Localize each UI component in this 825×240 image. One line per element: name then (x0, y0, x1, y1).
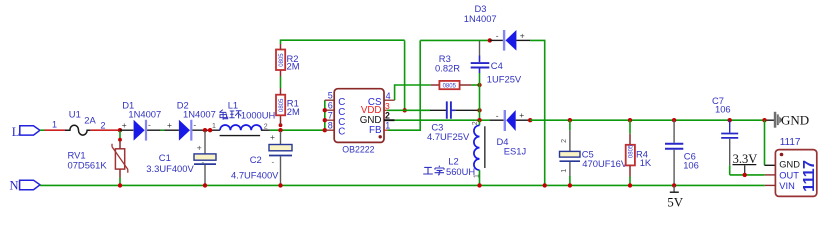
svg-text:C1: C1 (159, 152, 171, 163)
pin 2 GND (360, 111, 395, 126)
wire D1 to D2 (147, 129, 179, 131)
node bus pin8 junction (323, 128, 327, 132)
svg-text:560UH: 560UH (446, 166, 475, 177)
node VDD junction (403, 108, 407, 112)
label 色环1000UH (219, 110, 241, 120)
node GND row C4-column junction (477, 118, 481, 122)
node C6 top junction (672, 118, 676, 122)
wire GND row (pin2 net) (395, 119, 504, 121)
wire R2 top to VDD drop (281, 40, 405, 44)
svg-text:2: 2 (385, 111, 390, 121)
node C1 bottom junction (203, 183, 207, 187)
resistor R2 2M (276, 44, 300, 77)
svg-text:2: 2 (264, 123, 268, 130)
diode D1 1N4007 (122, 100, 161, 141)
svg-text:C2: C2 (250, 154, 262, 165)
capacitor C2 4.7UF400V (231, 131, 292, 185)
svg-text:D3: D3 (475, 3, 487, 14)
svg-text:-: - (148, 119, 151, 129)
node L (input connector) (12, 125, 40, 139)
svg-text:1: 1 (52, 120, 57, 130)
wire GND row to GND symbol (530, 119, 774, 121)
svg-text:2M: 2M (287, 106, 300, 117)
svg-text:0.82R: 0.82R (435, 63, 460, 74)
node top row D3 junction (488, 38, 492, 42)
svg-text:1: 1 (385, 121, 390, 131)
svg-text:3.3UF400V: 3.3UF400V (146, 163, 194, 174)
node R4 top junction (628, 118, 632, 122)
svg-text:5: 5 (328, 91, 333, 101)
svg-text:OUT: OUT (779, 170, 799, 180)
node R1 pin end dot (279, 123, 283, 127)
node C6 bottom junction (672, 183, 676, 187)
svg-text:+: + (167, 120, 172, 130)
inductor L1 色环1000UH (212, 99, 268, 135)
svg-text:2: 2 (561, 139, 568, 143)
node C7 top junction (728, 118, 732, 122)
wire top row right and down (530, 40, 545, 185)
svg-text:+: + (519, 110, 524, 120)
svg-text:1: 1 (561, 169, 568, 173)
wire OUT row (730, 174, 765, 176)
svg-text:4.7UF25V: 4.7UF25V (427, 131, 470, 142)
wire top row left (420, 39, 490, 41)
node GND drop junction (762, 118, 766, 122)
svg-text:1117: 1117 (780, 137, 801, 148)
node L1 pin1 dot (208, 128, 212, 132)
pin 1 FB (369, 121, 390, 136)
svg-text:7: 7 (328, 111, 333, 121)
node RV1 bottom junction (118, 183, 122, 187)
wire D2 to L1 (192, 129, 220, 131)
node A junction (118, 128, 122, 132)
svg-text:ES1J: ES1J (504, 145, 526, 156)
label 工字560UH (423, 166, 444, 176)
resistor R4 1K (626, 120, 652, 185)
svg-text:C: C (338, 126, 345, 137)
svg-text:3.3V: 3.3V (733, 152, 758, 166)
svg-text:0805: 0805 (279, 53, 285, 67)
svg-text:5V: 5V (667, 195, 684, 210)
node C5 top junction (568, 118, 572, 122)
svg-text:-: - (193, 119, 196, 129)
node VDD/C4 column junction (477, 108, 481, 112)
svg-text:OB2222: OB2222 (342, 145, 374, 155)
wire VDD row to C3 (387, 109, 447, 111)
svg-text:N: N (10, 178, 19, 192)
svg-text:2A: 2A (84, 115, 96, 126)
capacitor C4 1UF25V (471, 40, 522, 85)
wire node A to D1 (120, 129, 133, 131)
node N (input connector) (10, 178, 41, 192)
pin 5 (325, 91, 346, 108)
diode D4 ES1J (496, 110, 530, 156)
svg-text:-: - (272, 158, 275, 167)
svg-text:106: 106 (683, 160, 699, 171)
svg-text:1UF25V: 1UF25V (487, 73, 522, 84)
svg-text:0805: 0805 (629, 144, 635, 158)
svg-text:-: - (496, 31, 499, 41)
node C5 bottom junction (568, 183, 572, 187)
fuse U1 2A (65, 109, 106, 136)
svg-text:1: 1 (212, 123, 216, 130)
svg-text:GND: GND (781, 112, 809, 127)
svg-text:1N4007: 1N4007 (464, 13, 497, 24)
svg-text:+: + (270, 132, 275, 142)
wire GND drop to U3 GND pin (765, 120, 776, 165)
svg-text:1117: 1117 (801, 160, 818, 192)
wire VDD drop (404, 40, 406, 110)
capacitor C5 470UF16V (560, 120, 628, 185)
svg-text:1N4007: 1N4007 (183, 108, 216, 119)
capacitor C1 3.3UF400V (146, 131, 216, 185)
node D4 anode pin dot (528, 118, 532, 122)
node right loop bottom junction (543, 183, 547, 187)
capacitor C6 106 (665, 120, 699, 185)
svg-text:VIN: VIN (779, 181, 795, 191)
capacitor C3 4.7UF25V (427, 101, 480, 141)
svg-text:6: 6 (328, 101, 333, 111)
pin 3 VDD (361, 101, 390, 116)
svg-text:1N4007: 1N4007 (128, 108, 161, 119)
wire bottom rail (40, 184, 765, 186)
svg-text:GND: GND (779, 160, 800, 170)
svg-text:+: + (197, 142, 202, 152)
node B junction (C1 tap) (203, 128, 207, 132)
node bus pin6 junction (323, 108, 327, 112)
op-amp U2 OB2222 body (334, 89, 384, 155)
node CS/C4 junction (477, 83, 481, 87)
svg-text:470UF16V: 470UF16V (582, 158, 628, 169)
inductor L2 工字560UH (448, 120, 485, 185)
svg-text:0805: 0805 (279, 98, 285, 112)
svg-text:C4: C4 (491, 60, 503, 71)
wire OUT pin stub (765, 174, 776, 176)
wire FB row (387, 40, 420, 130)
node bus pin7 junction (323, 118, 327, 122)
pin 4 CS (368, 91, 395, 108)
node C junction (R1/C2 column) (278, 128, 282, 132)
svg-text:+: + (122, 120, 127, 130)
capacitor C7 106 (712, 95, 738, 175)
svg-text:106: 106 (715, 104, 731, 115)
svg-text:U1: U1 (69, 109, 81, 120)
wire fuse to node A (90, 129, 119, 131)
pin 8 (325, 121, 346, 138)
diode D2 1N4007 (167, 100, 216, 141)
wire L to fuse (40, 120, 65, 131)
resistor R1 2M (276, 77, 300, 126)
regulator U3 1117 (775, 137, 818, 196)
node R4 bottom junction (628, 183, 632, 187)
wire VIN pin stub (765, 184, 776, 186)
wire CS pin4 up and right (395, 85, 431, 100)
svg-text:-: - (496, 110, 499, 120)
svg-text:L: L (12, 125, 20, 139)
wire left pin bus of U2 (324, 100, 326, 130)
ground GND symbol (774, 112, 783, 128)
svg-text:8: 8 (328, 121, 333, 131)
svg-text:0805: 0805 (443, 83, 457, 89)
svg-text:1000UH: 1000UH (241, 110, 275, 121)
svg-text:4.7UF400V: 4.7UF400V (231, 169, 279, 180)
node L2 bottom junction (477, 183, 481, 187)
node 3.3V junction (743, 173, 747, 177)
wire C4 junction down to VDD and GND rows (479, 85, 481, 120)
power port 5V (667, 185, 684, 209)
svg-text:+: + (520, 30, 525, 40)
svg-text:FB: FB (369, 125, 382, 136)
svg-text:2: 2 (101, 120, 106, 130)
svg-text:-: - (202, 158, 205, 167)
svg-text:1K: 1K (640, 157, 652, 168)
resistor R3 0.82R (431, 53, 480, 90)
varistor RV1 07D561K (68, 131, 128, 185)
node C2 bottom junction (278, 183, 282, 187)
svg-text:2M: 2M (287, 61, 300, 72)
svg-text:L1: L1 (228, 99, 238, 110)
wire L1 to node C (261, 129, 325, 131)
svg-text:07D561K: 07D561K (68, 160, 108, 171)
svg-text:4: 4 (386, 91, 391, 101)
pin 7 (325, 111, 346, 128)
pin 6 (325, 101, 346, 118)
power port 3.3V (733, 152, 758, 175)
diode D3 1N4007 (464, 3, 530, 51)
